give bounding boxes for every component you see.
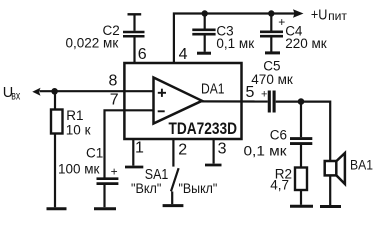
capacitor C5 (series, polarized) (251, 59, 293, 113)
wire: pin 8 input line (40, 90, 154, 92)
svg-text:220 мк: 220 мк (285, 36, 327, 51)
svg-text:"Вкл": "Вкл" (131, 181, 161, 196)
svg-text:+: + (111, 165, 118, 179)
ground terminal of SA1 (163, 204, 184, 207)
ground terminal of R2 (290, 205, 313, 208)
svg-text:1: 1 (135, 140, 144, 157)
svg-text:0,1 мк: 0,1 мк (244, 143, 288, 159)
svg-text:пит: пит (328, 9, 347, 23)
svg-text:4: 4 (179, 46, 188, 63)
svg-text:100 мк: 100 мк (58, 161, 100, 176)
svg-text:470 мк: 470 мк (251, 72, 293, 87)
op-amp IC DA1 box (124, 63, 241, 139)
pin 2 stub (173, 140, 187, 167)
svg-text:DA1: DA1 (201, 80, 225, 97)
pin 4 label (179, 46, 188, 63)
svg-text:7: 7 (110, 92, 119, 109)
svg-text:10 к: 10 к (66, 123, 91, 138)
svg-text:TDA7233D: TDA7233D (169, 120, 238, 138)
svg-text:4,7: 4,7 (270, 178, 289, 193)
svg-text:0,1 мк: 0,1 мк (216, 36, 254, 51)
resistor R1 (51, 91, 91, 207)
node: rail junction dot at C4 (268, 10, 274, 16)
ground terminal of C1 (94, 207, 116, 210)
capacitor C3 (192, 14, 254, 52)
svg-text:6: 6 (138, 46, 147, 63)
node: rail junction dot at C3 (202, 10, 208, 16)
wire: output to speaker with corner down (276, 102, 331, 160)
resistor R2 (270, 167, 307, 205)
op-amp triangle (154, 78, 203, 124)
svg-text:3: 3 (218, 141, 227, 158)
svg-text:+: + (261, 89, 267, 101)
pin 7 label (110, 92, 119, 109)
pin 8 label (109, 72, 118, 89)
pin 6 label (138, 46, 147, 63)
capacitor C1 (polarized) (58, 146, 118, 208)
capacitor C2 (66, 14, 145, 64)
ground terminal of C3 (197, 52, 211, 55)
wire: +supply rail with corner down to pin 4 (174, 14, 296, 65)
pin 1 stub and terminal (125, 140, 144, 168)
switch SA1 (131, 166, 217, 204)
loudspeaker BA1 (325, 153, 373, 205)
svg-text:+U: +U (311, 6, 328, 23)
svg-text:2: 2 (178, 142, 187, 159)
svg-text:C1: C1 (86, 146, 103, 161)
wire: pin 5 output line (201, 100, 268, 102)
svg-text:8: 8 (109, 72, 118, 89)
capacitor C4 (polarized) (260, 14, 327, 52)
pin 3 stub and terminal (205, 140, 227, 166)
ground terminal of C4 (265, 51, 280, 54)
capacitor C6 (244, 102, 313, 168)
net Uvx: input label and arrow (3, 85, 41, 103)
svg-text:0,022 мк: 0,022 мк (66, 35, 119, 50)
wire: pin 7 line with corner down to C1 (105, 110, 154, 177)
ground terminal of BA1 (320, 205, 341, 208)
net +Upit: arrow and label (293, 6, 348, 23)
svg-text:вх: вх (11, 91, 20, 103)
pin 5 label (246, 84, 255, 101)
svg-text:C6: C6 (270, 127, 287, 142)
ground terminal of R1 (47, 207, 67, 210)
svg-text:R1: R1 (66, 108, 83, 123)
svg-text:BA1: BA1 (350, 157, 373, 173)
node: junction dot at C6 (298, 98, 305, 105)
node: junction dot at R1 (51, 88, 58, 95)
svg-text:"Выкл": "Выкл" (179, 181, 218, 196)
